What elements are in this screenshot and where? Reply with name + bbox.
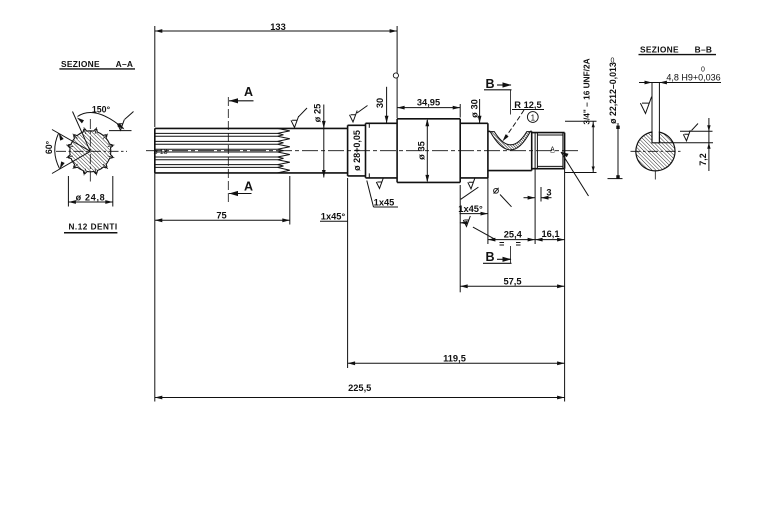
- main shaft centerline: [146, 150, 578, 152]
- ext line x564.6 full: [564, 169, 566, 402]
- keyway width dim 4,8 H9: [651, 83, 653, 134]
- svg-text:75: 75: [216, 210, 226, 220]
- svg-text:1x45: 1x45: [374, 198, 395, 208]
- radial tooth lines: [95, 127, 97, 134]
- svg-text:A̲: A̲: [549, 147, 555, 154]
- svg-text:3: 3: [546, 188, 551, 198]
- dim 133: [154, 26, 156, 127]
- surface symbol with arrow left: [463, 216, 470, 227]
- 150 deg dimension: [73, 112, 91, 152]
- leader: [461, 187, 479, 199]
- svg-text:0: 0: [701, 67, 705, 74]
- dim 25,4: [488, 239, 535, 241]
- ext line x535: [534, 169, 536, 244]
- svg-text:SEZIONE B–B: SEZIONE B–B: [640, 45, 712, 55]
- svg-text:16,1: 16,1: [541, 229, 559, 239]
- svg-text:=: =: [516, 239, 521, 249]
- svg-text:ø 18: ø 18: [154, 149, 168, 156]
- dim 16,1: [535, 239, 565, 241]
- surface symbol on collar: [350, 111, 358, 123]
- svg-text:30: 30: [375, 98, 385, 108]
- svg-text:ø 35: ø 35: [416, 141, 426, 160]
- svg-text:25,4: 25,4: [504, 229, 523, 239]
- svg-text:B: B: [485, 250, 494, 264]
- svg-text:7,2: 7,2: [698, 153, 708, 166]
- dim 57,5: [459, 185, 461, 292]
- svg-text:3/4" – 16 UNF/2A: 3/4" – 16 UNF/2A: [581, 58, 591, 124]
- surface finish symbol A-A: [117, 120, 124, 131]
- svg-text:R 12,5: R 12,5: [514, 100, 541, 110]
- svg-text:ø 28+0,05: ø 28+0,05: [352, 130, 362, 171]
- ext line x488: [487, 171, 489, 244]
- B-B shaft section circle hatched with keyway: [636, 132, 675, 171]
- small dia mark: [494, 188, 499, 193]
- dim 225,5: [154, 173, 156, 402]
- collar dia 28: [347, 125, 349, 176]
- dim 119,5: [347, 178, 349, 368]
- svg-text:A: A: [244, 180, 253, 194]
- svg-text:60°: 60°: [44, 140, 54, 154]
- dim 34,95: [459, 104, 461, 118]
- svg-text:133: 133: [270, 22, 286, 32]
- 60 deg dimension: [52, 130, 90, 152]
- svg-text:1: 1: [531, 113, 536, 122]
- svg-text:4,8 H9+0,036: 4,8 H9+0,036: [666, 73, 720, 83]
- surface symbol below dia30L: [376, 178, 383, 189]
- dia35 section: [396, 119, 398, 183]
- svg-text:ø 22,212–0,013: ø 22,212–0,013: [608, 62, 618, 124]
- splined hub section A-A, hatched: [68, 129, 113, 174]
- A-A centerlines: [89, 119, 91, 184]
- svg-text:150°: 150°: [92, 104, 111, 114]
- svg-text:SEZIONE A–A: SEZIONE A–A: [61, 59, 133, 69]
- svg-text:119,5: 119,5: [443, 354, 466, 364]
- shaft top edge (spline + dia25): [155, 127, 348, 129]
- section A-A cutting plane top: [227, 97, 229, 203]
- svg-text:0: 0: [611, 58, 615, 65]
- B-B centerlines: [631, 150, 682, 152]
- threaded end section: [532, 132, 565, 134]
- spline tooth lines: [155, 132, 278, 134]
- dia 24,8 dimension: [67, 176, 69, 207]
- svg-text:ø 24,8: ø 24,8: [76, 192, 106, 202]
- svg-text:ø 25: ø 25: [312, 104, 322, 123]
- svg-text:57,5: 57,5: [503, 276, 521, 286]
- svg-text:1x45°: 1x45°: [321, 212, 346, 222]
- svg-text:B: B: [485, 77, 494, 91]
- groove crescent R12,5 hatched: [490, 132, 530, 150]
- dia30 right section: [460, 122, 488, 124]
- dim 75: [289, 176, 291, 225]
- shaft bottom edge (spline + dia25): [155, 172, 348, 174]
- neck section with groove: [488, 130, 490, 132]
- spline tooth runout zigzag: [278, 128, 290, 173]
- shaft left end edge: [154, 128, 156, 173]
- thread dim line: [565, 120, 597, 122]
- svg-text:1x45°: 1x45°: [458, 204, 483, 214]
- keyway depth dim 7,2: [659, 142, 713, 144]
- svg-text:ø 30: ø 30: [469, 99, 479, 118]
- svg-text:A: A: [244, 85, 253, 99]
- balloon 1: [527, 112, 538, 123]
- section B-B cutting plane bottom: [510, 246, 512, 263]
- surface symbol below dia30R: [468, 178, 475, 189]
- dia30 left section: [366, 122, 398, 124]
- surface symbol on spline end: [291, 116, 299, 128]
- svg-text:34,95: 34,95: [417, 97, 440, 107]
- surface symbol B-B left: [640, 97, 651, 114]
- small circle on extension: [393, 73, 398, 78]
- svg-text:=: =: [499, 239, 504, 249]
- svg-text:225,5: 225,5: [348, 383, 371, 393]
- svg-text:N.12 DENTI: N.12 DENTI: [69, 223, 118, 232]
